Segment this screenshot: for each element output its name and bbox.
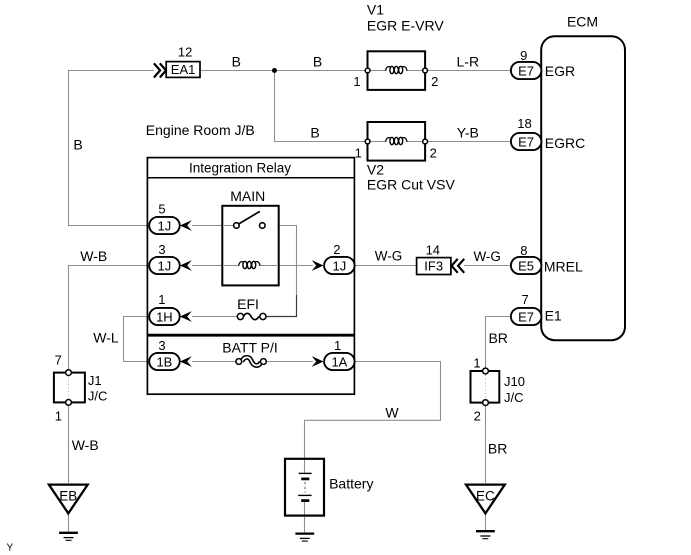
- svg-text:B: B: [73, 137, 82, 153]
- svg-text:W-G: W-G: [375, 248, 403, 263]
- svg-text:Battery: Battery: [329, 475, 373, 491]
- svg-text:1B: 1B: [156, 354, 172, 369]
- svg-text:W-B: W-B: [80, 248, 107, 264]
- svg-text:W-G: W-G: [473, 249, 501, 264]
- svg-text:J/C: J/C: [504, 390, 524, 405]
- svg-text:MREL: MREL: [544, 259, 583, 275]
- svg-text:8: 8: [520, 243, 527, 258]
- svg-text:1H: 1H: [156, 309, 173, 324]
- svg-text:B: B: [313, 53, 322, 69]
- svg-text:2: 2: [430, 145, 437, 160]
- svg-text:7: 7: [55, 353, 62, 368]
- svg-text:7: 7: [521, 292, 528, 307]
- svg-text:MAIN: MAIN: [230, 188, 265, 204]
- svg-text:E7: E7: [518, 63, 534, 78]
- svg-text:ECM: ECM: [567, 14, 598, 30]
- svg-text:J10: J10: [504, 374, 525, 389]
- svg-text:Engine Room J/B: Engine Room J/B: [146, 122, 255, 138]
- svg-text:EGR: EGR: [545, 63, 575, 79]
- svg-text:2: 2: [474, 409, 481, 424]
- svg-text:EGR E-VRV: EGR E-VRV: [367, 18, 444, 34]
- svg-text:BR: BR: [488, 440, 507, 456]
- svg-text:EC: EC: [476, 489, 495, 504]
- svg-text:1: 1: [158, 292, 165, 307]
- svg-text:BR: BR: [488, 330, 507, 346]
- svg-text:EB: EB: [59, 489, 77, 504]
- svg-text:B: B: [310, 124, 319, 140]
- svg-text:Y: Y: [7, 543, 14, 554]
- svg-text:J/C: J/C: [88, 389, 108, 404]
- svg-text:1: 1: [355, 145, 362, 160]
- svg-text:E7: E7: [518, 134, 534, 149]
- svg-text:1J: 1J: [158, 258, 172, 273]
- svg-text:Y-B: Y-B: [457, 124, 479, 140]
- svg-text:1: 1: [353, 74, 360, 89]
- svg-text:V1: V1: [367, 2, 384, 18]
- svg-text:BATT P/I: BATT P/I: [222, 339, 278, 355]
- svg-text:2: 2: [431, 74, 438, 89]
- svg-text:1J: 1J: [158, 218, 172, 233]
- svg-text:W-B: W-B: [72, 437, 99, 453]
- svg-text:12: 12: [178, 45, 192, 60]
- svg-text:1J: 1J: [333, 258, 347, 273]
- svg-text:E5: E5: [518, 258, 534, 273]
- svg-text:EGR Cut VSV: EGR Cut VSV: [367, 176, 456, 192]
- svg-text:Integration Relay: Integration Relay: [189, 161, 291, 176]
- svg-text:9: 9: [520, 48, 527, 63]
- svg-text:W: W: [385, 404, 399, 420]
- svg-text:V2: V2: [367, 162, 384, 178]
- svg-text:1: 1: [334, 338, 341, 353]
- svg-text:3: 3: [158, 338, 165, 353]
- svg-text:B: B: [232, 53, 241, 69]
- svg-text:3: 3: [158, 242, 165, 257]
- svg-text:EFI: EFI: [237, 296, 259, 312]
- svg-text:J1: J1: [88, 373, 102, 388]
- svg-text:W-L: W-L: [93, 330, 119, 346]
- svg-text:1: 1: [473, 355, 480, 370]
- svg-text:14: 14: [426, 243, 440, 258]
- svg-text:E1: E1: [545, 308, 562, 324]
- svg-text:EGRC: EGRC: [545, 135, 585, 151]
- svg-text:1: 1: [55, 409, 62, 424]
- svg-text:1A: 1A: [331, 354, 347, 369]
- svg-text:5: 5: [158, 202, 165, 217]
- svg-text:18: 18: [517, 116, 531, 131]
- svg-text:L-R: L-R: [457, 53, 480, 69]
- svg-text:EA1: EA1: [171, 62, 196, 77]
- svg-text:2: 2: [333, 242, 340, 257]
- svg-text:IF3: IF3: [424, 259, 443, 274]
- svg-text:E7: E7: [518, 309, 534, 324]
